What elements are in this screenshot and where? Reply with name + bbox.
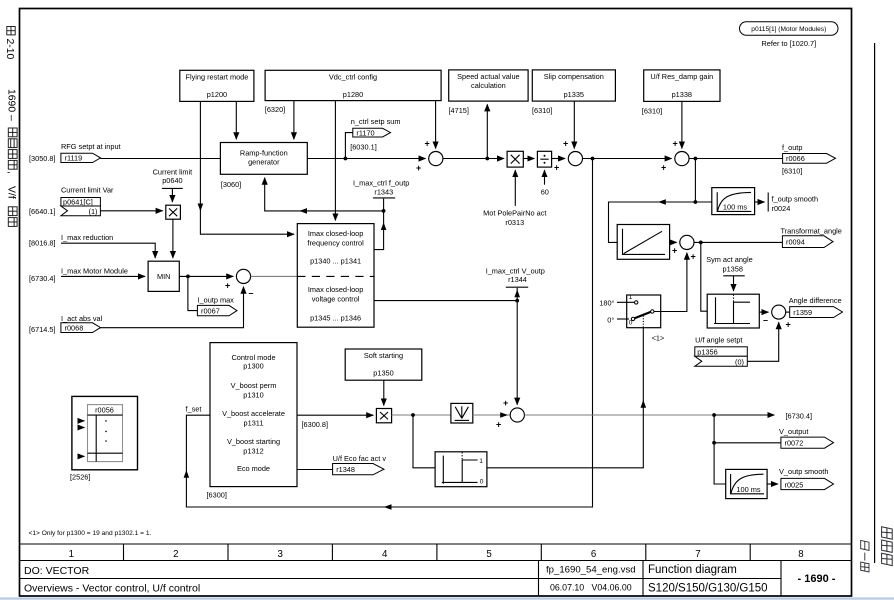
wire I_max reduction to MIN top <box>61 243 155 258</box>
adder5 <box>772 305 786 319</box>
wire Vdc to adder1 top <box>435 101 437 149</box>
svg-text:generator: generator <box>248 158 280 167</box>
svg-text:r1348: r1348 <box>336 465 355 474</box>
svg-text:V_boost perm: V_boost perm <box>231 381 277 390</box>
svg-text:0°: 0° <box>607 315 614 324</box>
junction V_output tap <box>712 413 716 417</box>
bottom blue strip <box>0 597 894 599</box>
wire r1343 tap to ramp bottom feedback <box>265 178 384 211</box>
svg-text:,: , <box>6 171 17 174</box>
svg-text:<1> Only for p1300 = 19 and p1: <1> Only for p1300 = 19 and p1302.1 = 1. <box>29 530 152 537</box>
arrow mid down on p1200 wire <box>198 204 204 212</box>
wire I_max Motor Module to MIN <box>61 275 145 277</box>
svg-text:[6310]: [6310] <box>532 106 552 115</box>
wire Flying p1200 to Imax freq input <box>200 101 294 234</box>
connector r0066 output flag <box>783 154 836 164</box>
svg-text:n_ctrl setp sum: n_ctrl setp sum <box>351 117 401 126</box>
svg-text:[6730.4]: [6730.4] <box>29 274 56 283</box>
svg-text:r1343: r1343 <box>374 187 393 196</box>
connector r0068 output flag <box>61 323 101 333</box>
title block table <box>20 544 852 596</box>
svg-text:Mot PolePairNo act: Mot PolePairNo act <box>483 209 546 218</box>
wire adder1 to multiplier X2 <box>443 158 504 160</box>
block Soft starting p1350 <box>345 349 422 380</box>
svg-text:–: – <box>249 288 254 298</box>
svg-text:p1358: p1358 <box>722 265 742 274</box>
svg-text:+: + <box>563 139 568 149</box>
svg-text:p1310: p1310 <box>243 391 263 400</box>
switch block <box>617 294 661 328</box>
info pill p0115 <box>740 22 839 48</box>
svg-text:Eco mode: Eco mode <box>237 464 270 473</box>
svg-text:r0072: r0072 <box>785 439 804 448</box>
svg-text:[3060]: [3060] <box>221 180 241 189</box>
adder6 <box>510 408 524 422</box>
block Slip compensation p1335 <box>532 70 615 115</box>
connector r0072 output flag <box>781 437 834 448</box>
margin caption right: sheet <box>861 540 869 572</box>
terminal bar r1344 <box>506 286 528 288</box>
arrow mid up to r1343 <box>381 222 387 230</box>
connector r0025 output flag <box>781 478 834 489</box>
svg-text:Imax closed-loop: Imax closed-loop <box>308 229 364 238</box>
wire f_outp tap down <box>694 159 696 203</box>
svg-text:4: 4 <box>382 549 388 560</box>
junction r1343 tap <box>382 209 386 213</box>
arrow mid up on switch riser <box>641 400 647 408</box>
svg-text:voltage control: voltage control <box>312 295 360 304</box>
svg-text:[6300]: [6300] <box>207 491 227 500</box>
wire adder3 to r0066 <box>689 158 783 160</box>
svg-text:r1359: r1359 <box>793 308 812 317</box>
svg-text:+: + <box>503 398 508 408</box>
wire Vdc to ramp top <box>293 101 295 140</box>
wire adder2 to adder3 <box>583 158 672 160</box>
svg-text:1: 1 <box>629 294 633 301</box>
svg-text:60: 60 <box>541 188 549 197</box>
connector r1119 output flag <box>61 153 101 162</box>
svg-text:0: 0 <box>480 478 484 485</box>
wire tap down to 100ms2 <box>714 443 726 484</box>
adder2 <box>568 152 582 166</box>
svg-text:RFG setpt at input: RFG setpt at input <box>61 142 121 151</box>
wire V block to adder6 (gray) <box>473 414 510 416</box>
svg-text:(1): (1) <box>89 207 98 216</box>
svg-text:[6730.4]: [6730.4] <box>786 412 813 421</box>
svg-text:U/f Res_damp gain: U/f Res_damp gain <box>650 72 713 81</box>
svg-text:1: 1 <box>69 549 74 560</box>
svg-text:I_act abs val: I_act abs val <box>61 314 103 323</box>
connector r1348 output flag <box>333 464 384 475</box>
wire adder5 to r1359 <box>786 311 790 313</box>
svg-text:p1280: p1280 <box>343 90 363 99</box>
smoothing block 100ms V_outp <box>726 469 767 498</box>
junction feedback smoothing <box>694 200 698 204</box>
svg-text:5: 5 <box>486 549 491 560</box>
limiter V block <box>451 403 473 423</box>
wire V out to [6730.4] <box>714 414 774 416</box>
terminal bar r1343 <box>373 197 395 199</box>
svg-text:p0640: p0640 <box>162 176 182 185</box>
terminal tick r0024 <box>767 193 769 212</box>
svg-text:8: 8 <box>798 549 803 560</box>
svg-text:r1170: r1170 <box>356 128 374 137</box>
wire stub to r1170 <box>345 133 352 159</box>
svg-text:+: + <box>691 252 696 262</box>
junction transformat tap <box>699 241 703 245</box>
svg-text:DO: VECTOR: DO: VECTOR <box>24 565 90 577</box>
svg-text:Speed actual value: Speed actual value <box>457 72 519 81</box>
wire Imax freq out up to r1343 <box>374 199 384 250</box>
svg-text:+: + <box>661 163 666 173</box>
wire X3 junction down to hysteresis2 <box>413 415 435 468</box>
wire adder4 to r0094 <box>694 241 782 243</box>
connector r0094 output flag <box>782 236 833 248</box>
wire eco mode to r1348 <box>297 469 333 471</box>
svg-text:[6300.8]: [6300.8] <box>302 420 329 429</box>
arrow mid left on ramp feedback <box>299 208 307 214</box>
svg-text:U/f Eco fac act v: U/f Eco fac act v <box>333 454 387 463</box>
svg-text:I_max reduction: I_max reduction <box>61 233 113 242</box>
junction r1344 tap <box>515 299 519 303</box>
wire 100ms to r0024 <box>755 201 765 203</box>
svg-text:V_output: V_output <box>779 427 808 436</box>
svg-text:V/f: V/f <box>6 186 17 199</box>
wire X3 output to V block (gray) <box>392 414 451 416</box>
svg-text:+: + <box>225 281 230 291</box>
svg-text:I_outp max: I_outp max <box>198 296 235 305</box>
svg-text:p1200: p1200 <box>207 90 227 99</box>
svg-text:6: 6 <box>591 549 596 560</box>
svg-text:+: + <box>673 139 678 149</box>
divider by 60 <box>537 151 551 167</box>
multiplier X2 polepair <box>507 151 523 167</box>
svg-text:MIN: MIN <box>157 272 170 281</box>
wire p1335 to adder2 top <box>573 101 575 148</box>
svg-text:(0): (0) <box>735 357 744 366</box>
wire Vdc to Imax freq top <box>334 101 336 221</box>
block Imax closed-loop control <box>297 224 374 328</box>
svg-text:r0025: r0025 <box>785 480 804 489</box>
wire p0640 to multiplier X1 <box>171 188 173 202</box>
adder Imin <box>236 269 250 283</box>
svg-text:p1300: p1300 <box>243 362 263 371</box>
svg-text:U/f angle setpt: U/f angle setpt <box>695 336 742 345</box>
adder4 <box>680 235 694 249</box>
svg-text:r0067: r0067 <box>201 306 220 315</box>
svg-text:p1356: p1356 <box>697 348 717 357</box>
junction X3 out <box>411 413 415 417</box>
junction f_outp tap <box>694 157 698 161</box>
svg-text:[6640.1]: [6640.1] <box>29 207 56 216</box>
block r0056 selector <box>72 396 138 469</box>
svg-text:–: – <box>763 315 768 325</box>
svg-text:[6030.1]: [6030.1] <box>350 143 377 152</box>
arrow mid up on f_set riser <box>184 470 190 478</box>
wire adder6 output (gray) <box>524 414 714 416</box>
wire p1356 to adder5 plus <box>747 322 778 361</box>
svg-text:3: 3 <box>278 549 283 560</box>
svg-text:1: 1 <box>479 458 483 465</box>
svg-text:Function diagram: Function diagram <box>648 564 737 576</box>
svg-text:f_outp: f_outp <box>782 143 802 152</box>
svg-text:r1344: r1344 <box>508 275 527 284</box>
svg-text:Transformat_angle: Transformat_angle <box>781 227 842 236</box>
svg-text:p1338: p1338 <box>672 90 692 99</box>
svg-text:r0068: r0068 <box>65 323 84 332</box>
svg-text:100 ms: 100 ms <box>736 485 761 494</box>
smoothing block 100ms f_outp <box>712 188 755 215</box>
svg-text:+: + <box>416 163 421 173</box>
svg-text:06.07.10 V04.06.00: 06.07.10 V04.06.00 <box>550 583 632 593</box>
wire adder Imin to Imax block (gray) <box>251 275 298 277</box>
svg-text:Ramp-function: Ramp-function <box>240 149 288 158</box>
wire speed calc input up <box>486 104 488 158</box>
svg-text:180°: 180° <box>599 299 614 308</box>
wire comparator to adder5 <box>759 311 768 313</box>
junction V_outp smooth tap <box>712 441 716 445</box>
page edge line right <box>874 43 876 563</box>
svg-text:r0094: r0094 <box>786 238 805 247</box>
svg-text:[3050.8]: [3050.8] <box>29 154 56 163</box>
wire switch output to adder4 bottom <box>654 253 687 312</box>
wire 60 to divider bottom <box>544 170 546 185</box>
connector p0641[C] input <box>61 198 101 216</box>
junction speed calc tap <box>485 157 489 161</box>
block MIN <box>148 261 179 291</box>
svg-text:100 ms: 100 ms <box>723 202 748 211</box>
svg-text:Sym act angle: Sym act angle <box>706 255 753 264</box>
wire X1 to MIN top <box>172 219 174 258</box>
block Ramp-function generator <box>220 143 307 190</box>
wire tap down to r0072 <box>714 415 781 443</box>
svg-text:+: + <box>554 163 559 173</box>
hysteresis block eco <box>435 452 487 487</box>
wire hysteresis2 to switch riser <box>487 328 643 468</box>
wire p0641 to multiplier X1 <box>100 210 162 212</box>
svg-text:r0056: r0056 <box>95 405 114 414</box>
svg-text:Slip compensation: Slip compensation <box>544 72 604 81</box>
svg-text:fp_1690_54_eng.vsd: fp_1690_54_eng.vsd <box>546 565 636 576</box>
svg-text:<1>: <1> <box>652 333 665 342</box>
svg-text:[6714.5]: [6714.5] <box>29 325 56 334</box>
wire f feedback down-left to f_set <box>186 159 592 508</box>
block U/f Res_damp gain p1338 <box>642 70 720 116</box>
svg-text:Angle difference: Angle difference <box>789 296 842 305</box>
svg-text:p1340 ... p1341: p1340 ... p1341 <box>310 257 361 266</box>
connector r0067 output flag <box>197 305 237 315</box>
block Control mode <box>210 343 297 487</box>
svg-text:r0313: r0313 <box>505 218 524 227</box>
svg-text:r0066: r0066 <box>786 154 805 163</box>
svg-text:Imax closed-loop: Imax closed-loop <box>308 285 364 294</box>
svg-text:Current limit Var: Current limit Var <box>61 186 114 195</box>
svg-text:7: 7 <box>695 549 700 560</box>
svg-text:[6320]: [6320] <box>265 105 285 114</box>
svg-text:calculation: calculation <box>471 81 506 90</box>
svg-text:Overviews - Vector control, U/: Overviews - Vector control, U/f control <box>24 583 200 595</box>
svg-text:p1312: p1312 <box>243 447 263 456</box>
connector r1170 output flag <box>353 128 391 137</box>
svg-text:r1119: r1119 <box>65 153 83 162</box>
svg-text:2-10: 2-10 <box>4 39 15 60</box>
svg-text:p0641[C]: p0641[C] <box>63 198 93 207</box>
junction MIN output <box>186 275 190 279</box>
margin caption fig number <box>4 27 15 60</box>
connector p1356 input <box>695 347 748 367</box>
svg-text:+: + <box>786 320 791 330</box>
comparator hysteresis sym angle <box>707 294 759 328</box>
wire Flying p1200 to ramp top <box>235 101 237 139</box>
svg-text:+: + <box>425 139 430 149</box>
wire branch to r0067 <box>188 276 198 310</box>
svg-text:frequency control: frequency control <box>307 239 364 248</box>
svg-text:[8016.8]: [8016.8] <box>29 239 56 248</box>
wire r1344 tap down to adder6 top <box>516 301 518 405</box>
margin caption title <box>6 89 17 226</box>
svg-text:p1345 ... p1346: p1345 ... p1346 <box>310 314 361 323</box>
wire feedback to angle path <box>609 202 712 242</box>
svg-text:p1350: p1350 <box>373 369 393 378</box>
svg-text:f_outp smooth: f_outp smooth <box>772 195 819 204</box>
svg-text:p1335: p1335 <box>564 90 584 99</box>
junction r1170 tap <box>344 157 348 161</box>
svg-text:Flying restart mode: Flying restart mode <box>185 73 248 82</box>
svg-text:[6310]: [6310] <box>782 167 802 176</box>
svg-text:p0115[1] (Motor Modules): p0115[1] (Motor Modules) <box>751 26 826 33</box>
wire transformat tap down to comparator <box>701 242 707 311</box>
characteristic block linear <box>617 225 669 260</box>
connector r1359 output flag <box>790 307 843 318</box>
svg-text:Soft starting: Soft starting <box>364 351 403 360</box>
svg-text:V_boost accelerate: V_boost accelerate <box>222 409 285 418</box>
arrow mid up to r1344 <box>514 290 520 298</box>
svg-text:V_outp smooth: V_outp smooth <box>779 467 828 476</box>
svg-text:f_set: f_set <box>186 405 202 414</box>
block Speed actual value calculation <box>449 70 529 115</box>
wire characteristic to adder4 <box>670 241 677 243</box>
wire r0313 to X2 bottom <box>514 170 516 206</box>
svg-text:[6310]: [6310] <box>642 107 662 116</box>
svg-text:V_boost starting: V_boost starting <box>227 437 280 446</box>
wire ramp output to adder1 <box>307 158 425 160</box>
svg-text:[4715]: [4715] <box>449 106 469 115</box>
terminal bar p1358 <box>723 275 744 277</box>
svg-text:S120/S150/G130/G150: S120/S150/G130/G150 <box>648 583 768 595</box>
wire 100ms2 to r0025 <box>767 483 778 485</box>
adder1 <box>429 152 443 166</box>
wire r0068 to adder Imin minus <box>101 287 244 328</box>
wire control mode to X3 <box>297 414 373 416</box>
wire p1338 to adder3 top <box>681 101 683 148</box>
wire Imax voltage out to r1344 and adder6 <box>374 300 517 302</box>
junction feedback f to V chain <box>591 157 595 161</box>
svg-text:Vdc_ctrl config: Vdc_ctrl config <box>329 73 377 82</box>
arrow into adder6 <box>500 412 508 418</box>
svg-text:I_max Motor Module: I_max Motor Module <box>61 267 128 276</box>
multiplier X1 p0640 <box>166 205 181 219</box>
wire r1119 to ramp input <box>101 158 221 160</box>
svg-text:Refer to [1020.7]: Refer to [1020.7] <box>761 39 816 48</box>
wire X2 to divider <box>523 158 534 160</box>
svg-text:- 1690 -: - 1690 - <box>798 573 836 585</box>
arrow mid left on bottom feedback <box>384 504 392 510</box>
svg-text:r0024: r0024 <box>772 204 791 213</box>
wire divider to adder2 <box>552 158 565 160</box>
block Vdc_ctrl config p1280 <box>265 70 441 114</box>
svg-text:+: + <box>496 420 501 430</box>
wire MIN to adder Imin <box>179 275 233 277</box>
svg-text:1690 –: 1690 – <box>6 89 17 121</box>
svg-text:p1311: p1311 <box>244 419 264 428</box>
terminal bar p0640 <box>162 187 183 189</box>
adder3 <box>675 152 689 166</box>
multiplier X3 soft start <box>376 409 391 423</box>
wire p1358 to comparator top <box>733 276 735 291</box>
arrow mid left on angle feedback <box>658 199 666 205</box>
svg-text:2: 2 <box>173 549 178 560</box>
block Flying restart mode p1200 <box>180 70 254 101</box>
svg-text:[2526]: [2526] <box>70 473 90 482</box>
svg-text:+: + <box>672 246 677 256</box>
wire soft starting to X3 <box>383 380 385 405</box>
margin caption right: function diagram <box>882 527 893 566</box>
